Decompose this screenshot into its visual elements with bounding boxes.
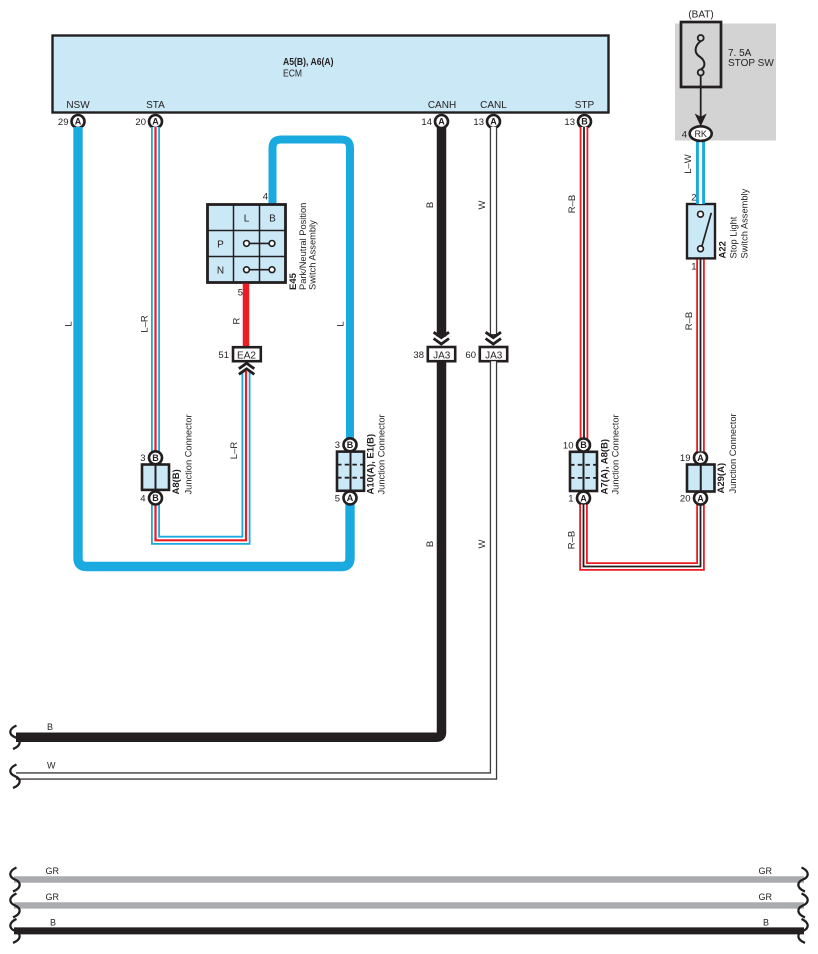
svg-text:B: B — [152, 453, 159, 463]
svg-text:GR: GR — [759, 866, 773, 876]
chevron arrows down above JA3 (38) — [434, 332, 449, 344]
power feed gray block — [675, 10, 776, 141]
svg-text:Switch Assembly: Switch Assembly — [740, 188, 750, 258]
svg-text:Junction Connector: Junction Connector — [728, 413, 738, 493]
wire B from JA3 to left edge break — [16, 361, 442, 737]
svg-text:ECM: ECM — [283, 69, 302, 80]
junction connector A10(A), E1(B) — [335, 414, 387, 504]
break symbol on wire B left end — [10, 726, 19, 750]
svg-text:14: 14 — [421, 117, 432, 128]
svg-text:B: B — [425, 541, 436, 547]
svg-text:Stop Light: Stop Light — [729, 216, 739, 258]
svg-text:R–B: R–B — [567, 531, 578, 549]
svg-text:STOP SW: STOP SW — [728, 58, 774, 69]
svg-text:STP: STP — [575, 100, 595, 111]
svg-text:2: 2 — [691, 193, 696, 204]
svg-text:Junction Connector: Junction Connector — [377, 414, 387, 494]
svg-text:JA3: JA3 — [485, 350, 503, 361]
wire R from E45 pin 5 to EA2 — [232, 284, 247, 348]
junction connector A7(A), A8(B) — [563, 414, 621, 504]
svg-text:GR: GR — [759, 892, 773, 902]
wire R-B from A7 pin 1 to A29 pin 20 — [567, 505, 701, 567]
E45 Park/Neutral Position Switch Assembly — [208, 192, 318, 299]
svg-text:Park/Neutral Position: Park/Neutral Position — [298, 203, 308, 290]
svg-text:29: 29 — [58, 117, 69, 128]
svg-text:51: 51 — [218, 350, 229, 361]
svg-text:3: 3 — [335, 440, 340, 451]
wire L-R from pin 20 to A8(B) pin 3 — [140, 127, 156, 452]
svg-text:38: 38 — [413, 350, 424, 361]
svg-text:1: 1 — [568, 494, 573, 505]
wire L from E45 pin 4 to A10/E1 pin 3 — [273, 140, 351, 439]
svg-text:GR: GR — [46, 892, 60, 902]
svg-text:L: L — [336, 321, 347, 326]
pin 14 (A) CANH — [421, 115, 448, 128]
svg-text:W: W — [477, 200, 488, 209]
svg-text:A10(A), E1(B): A10(A), E1(B) — [366, 434, 377, 495]
svg-text:L: L — [64, 321, 75, 326]
svg-text:A: A — [580, 493, 587, 503]
svg-text:B: B — [580, 440, 587, 450]
chevron arrows up below EA2 — [239, 363, 254, 374]
svg-text:1: 1 — [691, 262, 696, 273]
svg-text:L–R: L–R — [229, 442, 240, 460]
svg-text:A: A — [75, 117, 82, 127]
svg-text:A7(A), A8(B): A7(A), A8(B) — [600, 439, 611, 495]
arrow from fuse to connector RK — [695, 76, 707, 127]
svg-text:R–B: R–B — [567, 195, 578, 213]
wire W from JA3 to left edge break — [16, 361, 494, 776]
svg-text:A: A — [490, 117, 497, 127]
svg-text:4: 4 — [263, 192, 268, 203]
switch A22 Stop Light Switch Assembly — [687, 188, 750, 272]
svg-text:A: A — [697, 453, 704, 463]
wire L-W from RK to A22 pin 2 — [683, 141, 701, 205]
svg-text:4: 4 — [682, 130, 687, 141]
pin 20 (A) STA — [135, 115, 162, 128]
wire R-B from pin 13 (B) to A7 pin 10 — [567, 127, 584, 439]
connector EA2 (51) — [218, 347, 260, 361]
svg-text:R–B: R–B — [684, 312, 695, 330]
junction connector A8(B) — [140, 414, 193, 504]
svg-text:B: B — [269, 214, 276, 225]
svg-text:60: 60 — [465, 350, 476, 361]
shielded wire B (bottom) — [14, 918, 804, 931]
svg-text:A: A — [347, 493, 354, 503]
svg-text:STA: STA — [146, 100, 165, 111]
svg-text:A: A — [152, 117, 159, 127]
svg-text:4: 4 — [140, 494, 145, 505]
shielded wire GR (top) — [14, 866, 804, 880]
svg-text:L–W: L–W — [683, 154, 694, 174]
pin 13 (A) CANL — [473, 115, 500, 128]
svg-text:19: 19 — [680, 453, 691, 464]
junction connector A29(A) — [680, 413, 738, 504]
wire L-R from A8(B) pin 4 to EA2 — [156, 371, 247, 540]
break symbols wire GR top — [10, 868, 807, 892]
svg-text:JA3: JA3 — [433, 350, 451, 361]
svg-text:EA2: EA2 — [237, 350, 256, 361]
svg-text:W: W — [47, 761, 56, 771]
svg-text:A22: A22 — [718, 241, 729, 258]
svg-text:W: W — [477, 539, 488, 548]
break symbols wire GR middle — [10, 893, 807, 917]
svg-text:A: A — [438, 117, 445, 127]
svg-text:CANL: CANL — [480, 100, 507, 111]
pin 13 (B) STP — [564, 115, 591, 128]
svg-text:B: B — [425, 202, 436, 208]
svg-text:CANH: CANH — [428, 100, 456, 111]
chevron arrows down above JA3 (60) — [486, 332, 501, 344]
svg-text:5: 5 — [238, 288, 243, 299]
svg-text:10: 10 — [563, 441, 574, 452]
shielded wire GR (middle) — [14, 892, 804, 905]
svg-text:5: 5 — [335, 494, 340, 505]
svg-text:R: R — [232, 317, 243, 324]
connector JA3 (38) — [413, 347, 455, 361]
svg-text:20: 20 — [135, 117, 146, 128]
svg-text:RK: RK — [694, 129, 707, 139]
svg-text:P: P — [217, 240, 224, 251]
svg-text:Junction Connector: Junction Connector — [611, 414, 621, 494]
wire L from pin 29 to A10/E1 pin 5 — [64, 127, 351, 567]
svg-text:NSW: NSW — [66, 100, 90, 111]
fuse 7.5A STOP SW — [681, 22, 774, 87]
svg-text:L–R: L–R — [140, 315, 151, 333]
svg-text:20: 20 — [680, 494, 691, 505]
wire B from pin 14 to JA3 chevron — [425, 127, 442, 337]
wire R-B from A22 pin 1 to A29 pin 19 — [684, 259, 701, 452]
svg-text:13: 13 — [473, 117, 484, 128]
svg-text:Switch Assembly: Switch Assembly — [308, 220, 318, 290]
svg-text:(BAT): (BAT) — [688, 10, 713, 21]
break symbol on wire W left end — [10, 765, 19, 789]
svg-text:B: B — [50, 918, 56, 928]
break symbols wire B bottom — [10, 919, 807, 943]
svg-text:A5(B), A6(A): A5(B), A6(A) — [283, 56, 334, 68]
svg-text:N: N — [217, 266, 224, 277]
wire W from pin 13 (A) to JA3 chevron — [477, 127, 494, 337]
svg-text:B: B — [581, 117, 588, 127]
connector JA3 (60) — [465, 347, 507, 361]
svg-text:A8(B): A8(B) — [171, 469, 182, 494]
svg-text:3: 3 — [140, 453, 145, 464]
svg-text:B: B — [763, 918, 769, 928]
svg-text:GR: GR — [46, 866, 60, 876]
svg-text:B: B — [347, 440, 354, 450]
svg-text:B: B — [47, 722, 53, 732]
svg-text:A29(A): A29(A) — [716, 463, 727, 494]
pin 29 (A) NSW — [58, 115, 85, 128]
svg-text:B: B — [152, 493, 159, 503]
svg-text:13: 13 — [564, 117, 575, 128]
svg-text:A: A — [697, 493, 704, 503]
svg-text:L: L — [244, 214, 250, 225]
svg-text:Junction Connector: Junction Connector — [184, 414, 194, 494]
ECM box A5(B), A6(A) — [53, 36, 609, 113]
connector 4 (RK) — [682, 126, 712, 141]
